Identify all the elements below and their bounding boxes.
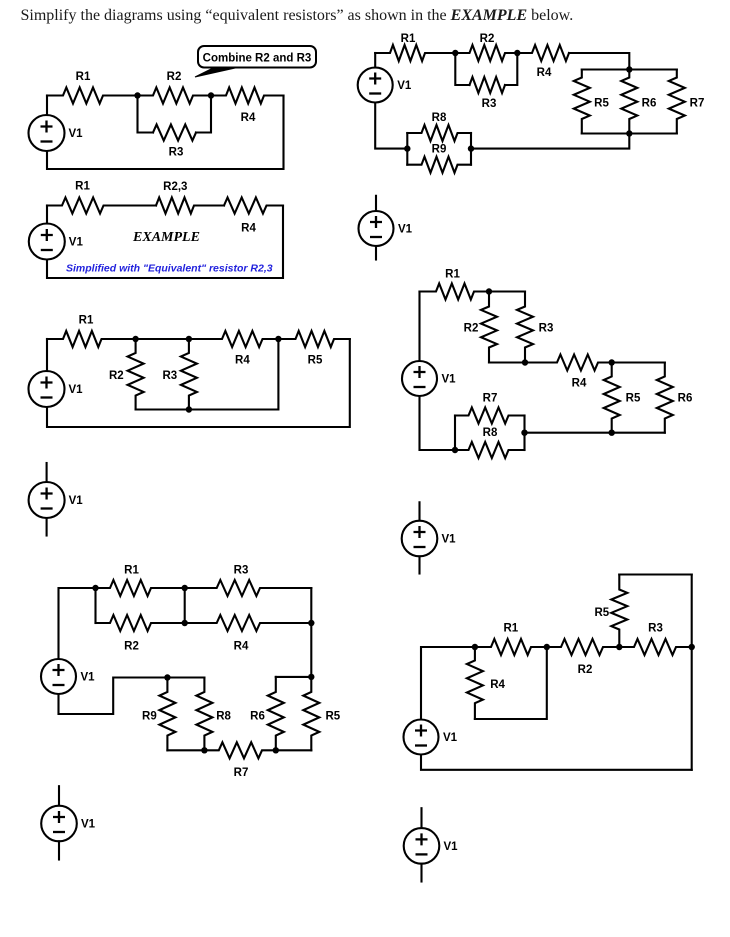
svg-text:R1: R1 [124,565,139,577]
svg-text:R7: R7 [483,393,498,405]
voltage source V1 (circuit 3) [29,371,65,407]
voltage source V1 (standalone e) [404,828,440,864]
node junction bottom of R8 [201,747,207,753]
svg-text:R1: R1 [79,315,94,327]
node junction right of R7 [273,747,279,753]
wire R3 up (circuit 4) [505,53,517,85]
node junction bottom of R5 (circuit 5) [609,430,615,436]
wire V1 bottom to R8 (circuit 5) [420,396,456,450]
svg-text:V1: V1 [442,534,457,546]
wire V1 bottom to R8R9 combo [375,103,407,149]
svg-text:R3: R3 [234,565,249,577]
node junction left of R8 [452,447,458,453]
svg-text:R3: R3 [482,98,497,110]
voltage source V1 (circuit 1) [29,115,65,151]
svg-text:R5: R5 [308,355,323,367]
resistor R5 (circuit 6) [303,677,319,750]
svg-text:Simplified with "Equivalent" r: Simplified with "Equivalent" resistor R2… [66,263,273,275]
wire right-bottom-left loop (circuit 1) [47,96,284,170]
resistor R4 (example) [224,198,283,214]
wire V1 top to R1 (circuit 7) [421,647,475,720]
svg-text:R6: R6 [250,710,265,722]
wire R3 right up (circuit 1) [196,96,211,133]
wire left vertical R7R8 [454,416,456,451]
wire stub bottom standalone V1 a [46,518,48,536]
wire right-bottom-left loop (circuit 3) [47,339,350,427]
voltage source V1 (circuit 5) [402,361,437,396]
wire R2 top to R3 top (circuit 5) [489,290,525,292]
svg-text:R4: R4 [490,679,505,691]
svg-text:R6: R6 [678,393,693,405]
wire R4 bottom loop (circuit 7) [475,647,547,719]
svg-text:R9: R9 [432,143,447,155]
svg-text:R4: R4 [234,641,249,653]
svg-text:R2: R2 [167,71,182,83]
wire top bus R5 R6 R7 [582,68,677,70]
voltage source V1 (standalone c) [402,521,438,557]
resistor R3 (circuit 4) [470,77,506,93]
node junction bottom of R3 [186,406,192,412]
node junction right of R4 (circuit 6) [308,620,314,626]
svg-text:R4: R4 [537,67,552,79]
resistor R6 (circuit 4) [621,70,637,134]
resistor R8 (circuit 5) [455,442,525,458]
svg-text:V1: V1 [81,819,96,831]
svg-text:R3: R3 [539,323,554,335]
node junction right of R4 (circuit 5) [609,359,615,365]
svg-text:R3: R3 [169,147,184,159]
wire to R7R8 combo (circuit 5) [525,432,612,434]
resistor R1 (circuit 3) [47,331,136,347]
wire bottom branch up to R4-R5 node [136,339,279,410]
svg-text:R7: R7 [234,767,249,779]
node junction left of R1 (circuit 7) [472,644,478,650]
resistor R2 (circuit 5) [481,292,497,363]
svg-text:R1: R1 [401,33,416,45]
svg-text:V1: V1 [443,732,458,744]
node junction top bus [626,66,632,72]
wire to R3 left (circuit 1) [138,96,154,133]
resistor R3 (circuit 3) [181,339,197,410]
svg-text:R2: R2 [464,323,479,335]
resistor R5 (circuit 4) [574,70,590,134]
node junction right of R3 (circuit 7) [689,644,695,650]
node junction left of R2 [134,92,140,98]
wire R5 top to right vertical (circuit 7) [619,573,691,575]
wire V1 top to R1 (circuit 4) [374,53,376,68]
resistor R7 (circuit 4) [669,70,685,134]
node junction top of R3 [186,336,192,342]
svg-text:Simplify the diagrams using “e: Simplify the diagrams using “equivalent … [21,7,574,24]
wire stub top standalone V1 b [375,196,377,211]
resistor R6 (circuit 6) [268,677,284,750]
node junction right of R4 [275,336,281,342]
voltage source V1 (circuit 6) [41,659,76,694]
svg-text:V1: V1 [444,841,459,853]
node junction bottom of R3 (circuit 5) [522,359,528,365]
resistor R8 (circuit 6) [196,678,212,751]
svg-text:V1: V1 [398,224,413,236]
node junction right of R7R8 [521,430,527,436]
resistor R4 (circuit 7) [467,647,483,719]
node junction right of R1 (circuit 7) [544,644,550,650]
wire R2 bottom to R3 bottom [489,361,525,363]
wire R4 to parallel bank (circuit 4) [569,53,629,70]
wire left vertical R8R9 [406,133,408,165]
node junction bottom bus [626,130,632,136]
svg-text:R8: R8 [432,112,447,124]
svg-text:V1: V1 [69,128,84,140]
resistor R3 (circuit 5) [517,292,533,363]
node junction right of R2 [208,92,214,98]
resistor R3 (circuit 6) [185,580,312,596]
resistor R2 (circuit 4) [455,45,517,61]
node junction top of R5 (circuit 6) [308,674,314,680]
resistor R2 (circuit 1) [138,88,212,104]
resistor R9 (circuit 6) [159,678,175,751]
svg-text:R8: R8 [483,427,498,439]
svg-text:R8: R8 [216,710,231,722]
svg-text:R2: R2 [109,370,124,382]
node junction left of R2 (circuit 4) [452,50,458,56]
svg-text:V1: V1 [81,672,96,684]
svg-text:R4: R4 [235,355,250,367]
node junction top of R9 [164,674,170,680]
svg-text:R6: R6 [642,98,657,110]
svg-text:R2,3: R2,3 [163,181,187,193]
svg-text:R1: R1 [75,181,90,193]
resistor R4 (circuit 4) [517,45,569,61]
resistor R5 (circuit 7) [611,575,627,648]
wire bottom bus R5 R6 R7 [582,132,677,134]
wire mid vertical R1R2 [184,588,186,623]
wire stub bottom standalone V1 b [375,246,377,260]
wire right vertical R7R8 [523,416,525,451]
resistor R2,3 (example) [156,198,224,214]
svg-text:R3: R3 [648,622,663,634]
svg-text:Combine R2 and R3: Combine R2 and R3 [203,53,312,65]
svg-text:R7: R7 [690,98,705,110]
svg-text:R5: R5 [325,710,340,722]
wire right vertical (circuit 6) [310,588,312,677]
wire stub bottom standalone V1 d [58,841,60,859]
node junction right of R2 (circuit 6) [182,620,188,626]
resistor R1 (circuit 7) [475,639,547,655]
svg-text:R2: R2 [578,664,593,676]
voltage source V1 (standalone a) [29,482,65,518]
svg-text:R2: R2 [124,641,139,653]
resistor R9 (circuit 4) [407,157,471,173]
voltage source V1 (circuit 4) [358,68,393,103]
voltage source V1 (standalone b) [359,211,394,246]
svg-text:R3: R3 [162,370,177,382]
node junction left of R1 (circuit 6) [92,585,98,591]
svg-text:V1: V1 [69,495,84,507]
resistor R7 (circuit 5) [455,408,525,424]
wire V1 top to R1 (circuit 3) [46,339,48,371]
callout pointer triangle [195,67,242,78]
svg-text:R4: R4 [572,378,587,390]
node junction top of R2 (circuit 5) [486,288,492,294]
svg-text:R2: R2 [480,33,495,45]
voltage source V1 (standalone d) [41,806,77,842]
resistor R8 (circuit 4) [407,125,471,141]
resistor R1 (circuit 4) [375,45,455,61]
svg-text:R4: R4 [241,223,256,235]
callout bubble "Combine R2 and R3" [198,46,316,68]
node junction right of R1 (circuit 6) [182,585,188,591]
resistor R1 (circuit 6) [96,580,185,596]
svg-text:V1: V1 [69,384,84,396]
wire between R2 and R3 tops [136,338,189,340]
wire stub top standalone V1 d [58,786,60,806]
voltage source V1 (circuit 7) [404,720,439,755]
svg-text:V1: V1 [442,374,457,386]
wire stub top standalone V1 a [46,463,48,482]
wire stub top standalone V1 c [418,502,420,521]
wire V1 bottom step to R9 [59,678,168,715]
resistor R6 (circuit 5) [657,363,673,433]
wire right vertical (circuit 7) [691,575,693,770]
resistor R4 (circuit 6) [185,615,312,631]
svg-text:R1: R1 [76,71,91,83]
resistor R2 (circuit 7) [547,639,620,655]
wire to R6 top (circuit 5) [612,361,665,363]
svg-text:R5: R5 [594,98,609,110]
node junction left of R8R9 [404,145,410,151]
wire down to R3 (circuit 4) [455,53,469,85]
wire V1 top to R1 (circuit 5) [418,292,420,362]
wire bottom bus to R8R9 combo [471,134,629,149]
wire R9 top to R8 top [167,676,204,678]
wire R6 top to right vertical [276,676,312,678]
svg-text:R5: R5 [626,393,641,405]
svg-text:R5: R5 [594,607,609,619]
resistor R1 (example) [47,198,156,214]
wire stub top standalone V1 e [420,808,422,828]
svg-text:R4: R4 [241,112,256,124]
resistor R1 (circuit 1) [47,88,138,104]
voltage source V1 (example circuit) [29,224,65,260]
resistor R3 (circuit 1) [153,125,196,141]
wire left vertical to R2 [94,588,96,623]
resistor R4 (circuit 1) [211,88,284,104]
wire right-bottom-left loop (example) [47,206,283,279]
resistor R1 (circuit 5) [420,284,490,300]
wire R7 to R5 bottom [276,749,312,751]
resistor R2 (circuit 6) [96,615,185,631]
wire V1 top to R1 (example) [46,206,48,224]
wire stub bottom standalone V1 e [420,864,422,882]
wire V1 bottom (circuit 7) [421,755,692,770]
resistor R2 (circuit 3) [128,339,144,410]
resistor R5 (circuit 3) [278,331,349,347]
resistor R7 (circuit 6) [204,742,275,758]
wire R5 bottom to R6 bottom [612,432,665,434]
svg-text:EXAMPLE: EXAMPLE [132,230,200,245]
svg-text:R1: R1 [503,622,518,634]
resistor R4 (circuit 5) [525,355,612,371]
node junction top of R2 [132,336,138,342]
wire V1 top to R1 (circuit 6) [59,588,96,659]
node junction right of R2 (circuit 4) [514,50,520,56]
node junction left of R3 (circuit 7) [616,644,622,650]
wire R9 bottom to R8 bottom [167,749,204,751]
resistor R3 (circuit 7) [619,639,691,655]
svg-text:V1: V1 [69,237,84,249]
wire stub bottom standalone V1 c [418,556,420,573]
svg-text:V1: V1 [397,80,412,92]
svg-text:R1: R1 [445,269,460,281]
svg-text:R9: R9 [142,710,157,722]
wire V1 top to R1 (circuit 1) [46,96,48,116]
resistor R4 (circuit 3) [189,331,279,347]
node junction right of R8R9 [468,145,474,151]
resistor R5 (circuit 5) [604,363,620,433]
wire right vertical R8R9 [470,133,472,165]
